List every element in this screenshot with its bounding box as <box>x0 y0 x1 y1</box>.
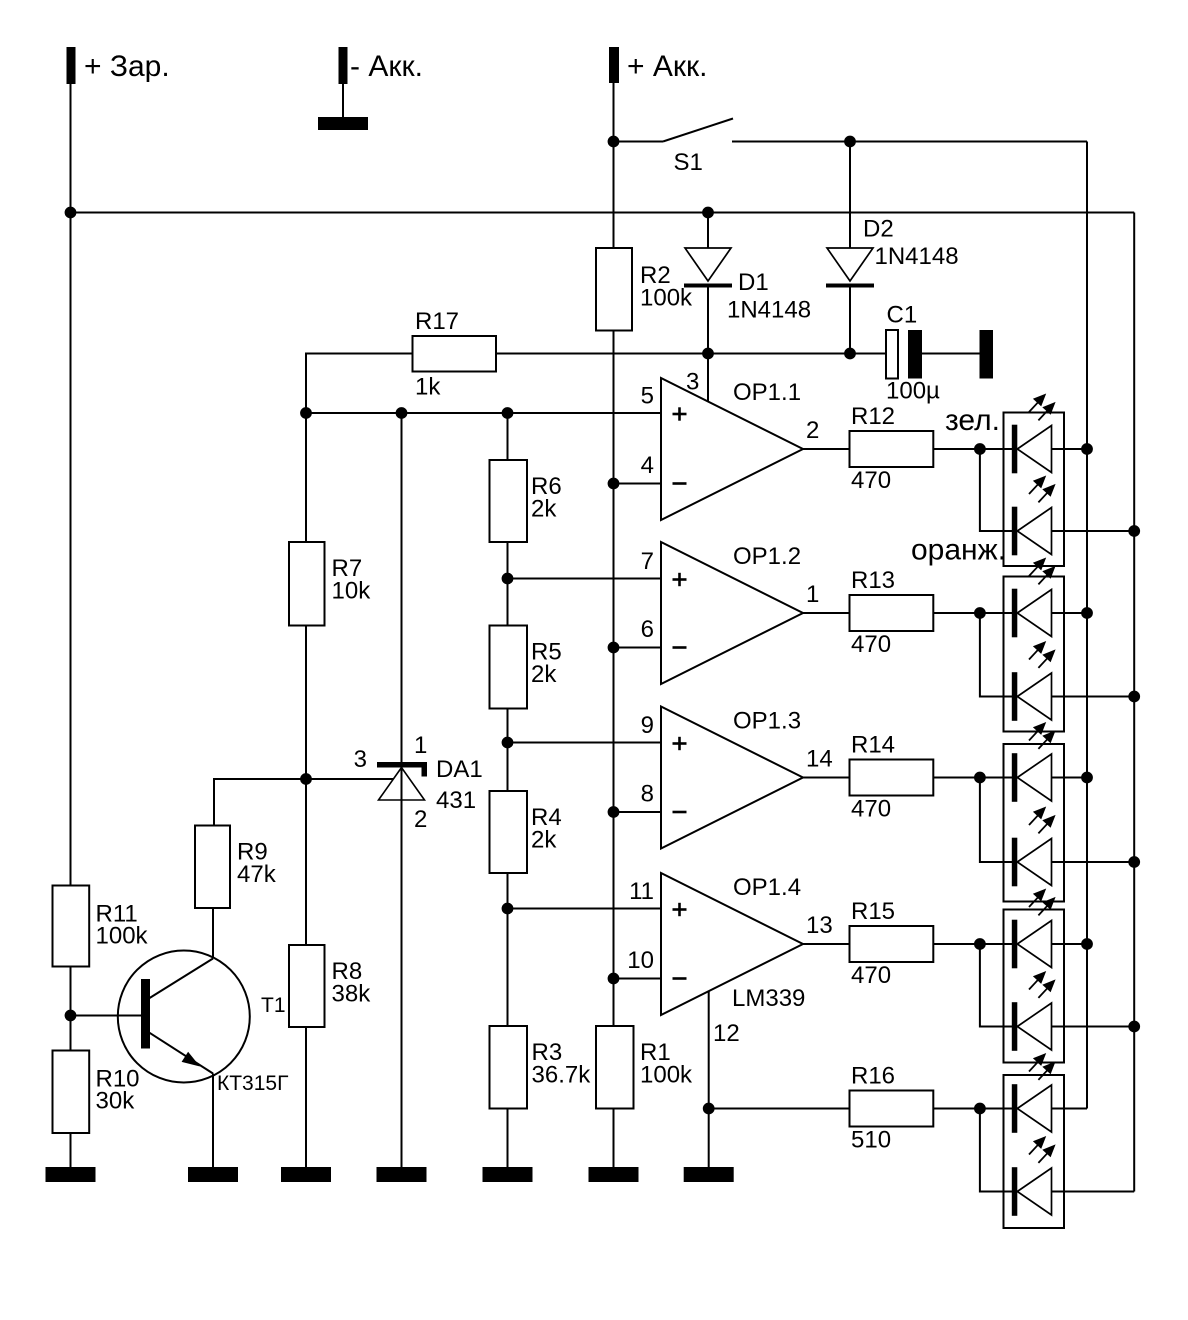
svg-text:1N4148: 1N4148 <box>875 243 959 270</box>
resistor R17 <box>413 336 497 372</box>
wire OP1.3 output <box>803 777 850 779</box>
wire R16 left <box>709 1108 850 1110</box>
resistor R1 <box>596 1026 634 1109</box>
wire R1 to ground <box>613 1109 615 1168</box>
terminal - Акк. <box>339 47 348 84</box>
LED orange 3 <box>1012 838 1018 887</box>
svg-text:LM339: LM339 <box>732 985 805 1012</box>
wire OP1.3 - input <box>614 811 662 813</box>
svg-text:30k: 30k <box>96 1088 136 1115</box>
node bus-left junction <box>65 207 77 219</box>
resistor R5 <box>490 626 528 709</box>
node R17/R7 junction <box>300 407 312 419</box>
resistor R16 <box>850 1091 934 1127</box>
wire OP1.4 - input <box>614 978 662 980</box>
wire LED orange 1 cathode stub <box>980 449 1017 531</box>
wire R10 to ground <box>70 1133 72 1167</box>
resistor R6 <box>490 460 528 542</box>
node green rail row 3 <box>1081 772 1093 784</box>
LED pair box 1 <box>1004 413 1065 567</box>
svg-text:5: 5 <box>641 383 654 410</box>
wire OP1.4 + input <box>508 908 662 910</box>
LED orange 2 <box>1012 672 1018 721</box>
wire LED orange 2 anode <box>1052 696 1135 698</box>
node green rail row 2 <box>1081 607 1093 619</box>
LED pair box 4 <box>1004 910 1065 1063</box>
wire LED green 4 anode <box>1052 943 1088 945</box>
op-amp U1 OP1.3 <box>661 707 803 849</box>
wire LED green 5 anode <box>1052 1108 1088 1110</box>
OP1.4 minus mark <box>673 977 687 980</box>
resistor R4 <box>490 791 528 873</box>
node OP1.3 - input junction <box>608 806 620 818</box>
svg-text:470: 470 <box>851 631 891 658</box>
svg-text:+ Зар.: + Зар. <box>84 50 170 83</box>
wire pin5 row <box>306 412 661 414</box>
OP1.3 minus mark <box>673 811 687 814</box>
svg-text:+ Акк.: + Акк. <box>627 50 707 83</box>
wire minus-input rail R2 to R1 <box>613 331 615 1027</box>
svg-text:2k: 2k <box>531 496 557 523</box>
op-amp U1 OP1.4 <box>661 873 803 1015</box>
wire OP1.2 + input <box>508 578 662 580</box>
ground 5 <box>483 1167 533 1182</box>
svg-text:10: 10 <box>627 947 654 974</box>
svg-text:2k: 2k <box>531 661 557 688</box>
svg-text:8: 8 <box>641 781 654 808</box>
node LED row 2 <box>974 607 986 619</box>
svg-text:470: 470 <box>851 962 891 989</box>
LED green 1 <box>1012 425 1018 474</box>
node LED row 4 <box>974 938 986 950</box>
svg-text:зел.: зел. <box>945 404 1000 437</box>
svg-text:OP1.2: OP1.2 <box>733 543 801 570</box>
resistor R10 <box>53 1051 90 1134</box>
svg-text:R17: R17 <box>415 308 459 335</box>
LED orange 4 <box>1012 1002 1018 1051</box>
node divider tap 3 <box>502 903 514 915</box>
svg-text:T1: T1 <box>261 994 286 1017</box>
node orange rail row 4 <box>1128 1021 1140 1033</box>
svg-text:OP1.3: OP1.3 <box>733 708 801 735</box>
node green rail row 4 <box>1081 938 1093 950</box>
LED green 5 <box>1012 1084 1018 1133</box>
svg-text:100k: 100k <box>640 285 693 312</box>
resistor R13 <box>850 595 934 631</box>
svg-text:2k: 2k <box>531 827 557 854</box>
diode D2 <box>849 142 851 249</box>
wire LED green 3 anode <box>1052 777 1088 779</box>
LED green 2 <box>1012 589 1018 638</box>
ground -Акк <box>318 117 368 130</box>
svg-text:38k: 38k <box>332 981 372 1008</box>
svg-text:7: 7 <box>641 548 654 575</box>
svg-text:1: 1 <box>414 732 427 759</box>
terminal + Зар. <box>67 47 76 84</box>
wire + Акк. down to R2 <box>613 83 615 248</box>
resistor R2 <box>596 248 632 331</box>
wire R17 left to pin5 node <box>306 354 413 414</box>
svg-text:13: 13 <box>806 912 833 939</box>
svg-text:10k: 10k <box>332 578 372 605</box>
svg-text:100k: 100k <box>640 1062 693 1089</box>
wire R11-R10 <box>70 967 72 1051</box>
wire LED orange 5 anode <box>1052 1191 1135 1193</box>
diode D1 <box>707 213 709 249</box>
wire LED green 1 anode <box>1052 448 1088 450</box>
wire OP1.4 output <box>803 943 850 945</box>
wire R14 right <box>933 777 1017 779</box>
node LED row 5 <box>974 1103 986 1115</box>
svg-text:1k: 1k <box>415 374 441 401</box>
wire LED orange 4 anode <box>1052 1026 1135 1028</box>
resistor R3 <box>490 1026 528 1109</box>
node base junction <box>65 1010 77 1022</box>
node D1 anode on bus <box>702 207 714 219</box>
OP1.1 plus mark <box>673 413 687 416</box>
resistor R7 <box>289 542 325 626</box>
svg-text:R13: R13 <box>851 567 895 594</box>
resistor R9 <box>195 826 230 909</box>
node green rail row 1 <box>1081 443 1093 455</box>
node orange rail row 3 <box>1128 856 1140 868</box>
svg-text:C1: C1 <box>887 302 918 329</box>
wire DA1 ref <box>306 778 394 780</box>
node divider tap 2 <box>502 737 514 749</box>
wire LED orange 1 anode <box>1052 530 1135 532</box>
svg-text:DA1: DA1 <box>436 756 483 783</box>
wire LED green 2 anode <box>1052 612 1088 614</box>
svg-text:оранж.: оранж. <box>911 534 1006 567</box>
wire OP1.1 + input <box>306 412 661 414</box>
LED orange 5 <box>1012 1167 1018 1216</box>
node divider tap 1 <box>502 573 514 585</box>
svg-text:2: 2 <box>414 806 427 833</box>
svg-text:470: 470 <box>851 467 891 494</box>
svg-text:100k: 100k <box>96 923 149 950</box>
ground 2 <box>188 1167 238 1182</box>
ground 3 <box>281 1167 331 1182</box>
node DA1 rail junction <box>396 407 408 419</box>
node divider top junction <box>502 407 514 419</box>
wire OP1.2 - input <box>614 647 662 649</box>
wire OP1.3 + input <box>508 742 662 744</box>
svg-text:6: 6 <box>641 616 654 643</box>
svg-text:R14: R14 <box>851 732 895 759</box>
wire top bus +Зар to orange rail <box>71 212 1135 214</box>
wire green anode rail <box>1086 142 1088 1109</box>
wire R13 right <box>933 612 1017 614</box>
svg-text:1: 1 <box>806 581 819 608</box>
node DA1 ref junction <box>300 773 312 785</box>
wire R7-R8 rail <box>305 413 307 542</box>
capacitor C1 <box>886 330 898 379</box>
wire LED orange 5 cathode stub <box>980 1109 1017 1192</box>
node pin12/R16 junction <box>703 1103 715 1115</box>
wire - Акк. to ground <box>342 84 344 117</box>
svg-text:14: 14 <box>806 746 833 773</box>
svg-text:12: 12 <box>713 1020 740 1047</box>
OP1.1 minus mark <box>673 482 687 485</box>
svg-text:D1: D1 <box>738 269 769 296</box>
svg-text:S1: S1 <box>674 149 703 176</box>
svg-text:9: 9 <box>641 712 654 739</box>
resistor R12 <box>850 431 934 467</box>
pin 12 wire <box>708 992 710 1168</box>
wire LED orange 3 anode <box>1052 861 1135 863</box>
svg-text:36.7k: 36.7k <box>532 1062 592 1089</box>
svg-text:100µ: 100µ <box>886 378 940 405</box>
wire LED orange 2 cathode stub <box>980 613 1017 697</box>
node OP1.4 - input junction <box>608 973 620 985</box>
wire R15 right <box>933 943 1017 945</box>
transistor Q1 T1 КТ315Г <box>118 951 250 1083</box>
OP1.2 minus mark <box>673 646 687 649</box>
svg-text:510: 510 <box>851 1127 891 1154</box>
ground 1 <box>46 1167 96 1182</box>
wire orange anode rail <box>1133 213 1135 1192</box>
svg-text:D2: D2 <box>863 216 894 243</box>
resistor R11 <box>53 886 90 967</box>
svg-text:2: 2 <box>806 417 819 444</box>
ground 6 <box>589 1167 639 1182</box>
svg-text:470: 470 <box>851 796 891 823</box>
resistor R14 <box>850 760 934 796</box>
node LED row 3 <box>974 772 986 784</box>
svg-text:- Акк.: - Акк. <box>350 50 423 83</box>
LED green 3 <box>1012 753 1018 802</box>
LED pair box 5 <box>1004 1075 1065 1228</box>
wire node y353 R17-C1 <box>496 353 886 355</box>
switch S1 <box>614 141 664 143</box>
ground 7 <box>684 1167 734 1182</box>
op-amp U1 OP1.2 <box>661 542 803 684</box>
wire LED orange 3 cathode stub <box>980 778 1017 863</box>
LED pair box 3 <box>1004 744 1065 902</box>
shunt regulator DA1 431 <box>401 413 403 1167</box>
resistor R8 <box>289 945 325 1027</box>
node OP1.2 - input junction <box>608 642 620 654</box>
svg-text:R15: R15 <box>851 898 895 925</box>
LED orange 1 <box>1012 507 1018 556</box>
OP1.4 plus mark <box>673 908 687 911</box>
node switch/D2 junction <box>844 136 856 148</box>
svg-text:OP1.1: OP1.1 <box>733 379 801 406</box>
svg-text:КТ315Г: КТ315Г <box>217 1072 288 1095</box>
svg-text:431: 431 <box>436 787 476 814</box>
svg-text:11: 11 <box>629 878 654 905</box>
wire OP1.2 output <box>803 612 850 614</box>
node LED row 1 <box>974 443 986 455</box>
wire OP1.1 - input <box>614 483 662 485</box>
svg-text:3: 3 <box>686 369 699 396</box>
wire R16 right <box>933 1108 1017 1110</box>
ground 4 <box>377 1167 427 1182</box>
node orange rail row 2 <box>1128 691 1140 703</box>
node switch input <box>608 136 620 148</box>
svg-text:R16: R16 <box>851 1063 895 1090</box>
LED green 4 <box>1012 920 1018 969</box>
node D2 cathode <box>844 348 856 360</box>
terminal + Акк. <box>609 47 619 83</box>
svg-text:1N4148: 1N4148 <box>727 297 811 324</box>
LED pair box 2 <box>1004 577 1065 732</box>
OP1.2 plus mark <box>673 578 687 581</box>
wire + Зар. rail down left side <box>70 84 72 886</box>
node D1 cathode <box>702 348 714 360</box>
svg-text:OP1.4: OP1.4 <box>733 874 801 901</box>
wire OP1.1 output <box>803 448 850 450</box>
svg-text:R12: R12 <box>851 403 895 430</box>
op-amp U1 OP1.1 <box>661 378 803 520</box>
node orange rail row 1 <box>1128 525 1140 537</box>
node OP1.1 - input junction <box>608 478 620 490</box>
resistor R15 <box>850 926 934 962</box>
wire divider rail <box>507 413 509 460</box>
wire LED orange 4 cathode stub <box>980 944 1017 1027</box>
wire R12 right <box>933 448 1017 450</box>
OP1.3 plus mark <box>673 742 687 745</box>
svg-text:3: 3 <box>354 746 367 773</box>
svg-text:47k: 47k <box>237 861 277 888</box>
svg-text:4: 4 <box>641 452 654 479</box>
wire R9 top <box>214 779 306 826</box>
